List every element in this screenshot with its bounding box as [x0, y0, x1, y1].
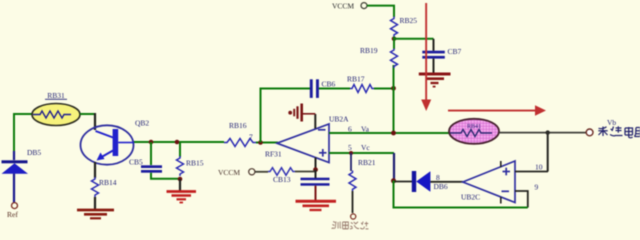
resistor RB41 (magenta ellipse) [449, 119, 499, 144]
junction at RB15 tap [175, 140, 180, 145]
svg-text:6: 6 [348, 125, 352, 134]
svg-text:Va: Va [361, 125, 370, 134]
wire Vb node down to pin 10 [547, 133, 549, 172]
diode DB6 [412, 171, 431, 192]
minus sign pin 9 [502, 190, 510, 192]
wire CB6 to RB17 [319, 88, 350, 90]
ground sideways at op-amp V+ [288, 104, 315, 122]
svg-text:RB21: RB21 [358, 158, 376, 167]
wire RB15 top lead [179, 142, 181, 157]
wire node X vertical [393, 65, 395, 133]
junction node X [391, 86, 396, 91]
wire CB5 bottom to RB15 bottom [151, 173, 180, 179]
label 采样电压 (drawn strokes) [598, 126, 640, 138]
resistor RB15 [177, 156, 184, 176]
wire cap lead [315, 170, 317, 178]
wire CB5 top lead [150, 142, 152, 165]
port Ref connector [12, 203, 18, 209]
wire VCCM to RB25 [367, 6, 394, 17]
resistor RB17 [350, 85, 374, 93]
wire DB6 cathode lead [394, 181, 413, 183]
wire CB7 to ground [433, 59, 435, 73]
svg-text:VCCM: VCCM [218, 168, 240, 177]
svg-text:5: 5 [348, 143, 352, 152]
svg-text:CB7: CB7 [448, 47, 462, 56]
svg-text:7: 7 [249, 133, 253, 142]
port VCCM (top) [332, 2, 367, 11]
svg-text:UB2C: UB2C [461, 193, 480, 202]
svg-text:UB2A: UB2A [329, 115, 349, 124]
wire feedback bottom loop [394, 181, 528, 208]
svg-text:RB19: RB19 [360, 46, 378, 55]
junction RB21 tap [349, 151, 353, 155]
op-amp UB2C (mirrored, output left) [463, 161, 515, 203]
wire RB31 to QB2 collector [80, 113, 95, 115]
svg-text:DB6: DB6 [434, 182, 448, 191]
wire pin 10 [515, 171, 548, 173]
wire VCCM to CB13 [255, 171, 268, 173]
wire to ground [179, 179, 181, 191]
wire RB14 to ground [94, 197, 96, 210]
ground below RB14 [77, 210, 114, 218]
svg-text:CB13: CB13 [273, 175, 291, 184]
wire left vertical from RB31 ellipse down to DB5 [14, 114, 33, 152]
svg-text:RB15: RB15 [186, 159, 204, 168]
wire RB21 to connector [352, 191, 354, 213]
arrow red vertical [421, 3, 431, 111]
wire cap to ground [315, 186, 317, 201]
capacitor CB7 [422, 51, 445, 59]
wire op-amp V+ stub [314, 114, 316, 129]
resistor RB14 [92, 177, 99, 197]
svg-text:RB25: RB25 [400, 16, 418, 25]
svg-text:8: 8 [436, 173, 440, 182]
wire RB16 to op-amp [256, 142, 278, 144]
diode DB5 [2, 160, 29, 173]
plus sign pin 5 [319, 149, 327, 157]
svg-text:10: 10 [535, 163, 543, 172]
svg-text:RB41: RB41 [467, 124, 481, 130]
junction at CB5 tap [149, 140, 154, 145]
junction feedback tap [258, 140, 263, 145]
op-amp UB2A (mirrored, output left) [277, 124, 329, 163]
junction DB6 node [391, 178, 396, 183]
svg-text:VCCM: VCCM [332, 2, 354, 11]
wire pin 5 / net Vc [329, 152, 394, 154]
wire Vc corner down to DB6 node [393, 153, 395, 181]
svg-text:QB2: QB2 [135, 119, 149, 128]
svg-text:RB14: RB14 [99, 178, 117, 187]
ground below RB15 [167, 192, 197, 203]
resistor RB25 [391, 17, 398, 37]
wire CB13 to V- node [295, 171, 316, 173]
wire emitter down [94, 162, 96, 178]
junction V- node [313, 167, 318, 172]
plus sign pin 10 [503, 168, 511, 176]
resistor RB21 [349, 171, 356, 192]
port VCCM (middle) [218, 168, 255, 177]
wire collector lead [94, 113, 96, 130]
svg-text:Ref: Ref [7, 210, 18, 219]
junction Vb tap [546, 130, 550, 134]
svg-text:CB5: CB5 [129, 158, 143, 167]
svg-text:DB5: DB5 [27, 148, 41, 157]
port connector (current share) [351, 214, 356, 219]
transistor QB2 [81, 125, 135, 164]
wire RB41 to Vb connector [499, 132, 586, 134]
svg-text:9: 9 [535, 183, 539, 192]
wire RB17 to node X [374, 88, 394, 90]
arrow red horizontal [448, 105, 546, 116]
port Vb connector [586, 129, 593, 136]
wire feedback up and right to CB6 [261, 89, 311, 143]
wire junction to RB19 [393, 37, 395, 50]
wire CB7 branch [394, 38, 434, 40]
svg-text:Vc: Vc [361, 143, 370, 152]
wire DB6 anode to UB2C output [430, 181, 463, 183]
op-amp power stubs [500, 161, 502, 204]
wire QB2 base to RB16 [134, 141, 224, 143]
svg-text:RF31: RF31 [265, 150, 282, 159]
ground below cap [296, 201, 337, 210]
resistor RB16 [224, 139, 256, 147]
label RB31 [45, 91, 67, 100]
capacitor CB6 [310, 79, 319, 98]
svg-text:RB17: RB17 [347, 75, 365, 84]
svg-text:Vb: Vb [607, 118, 616, 127]
capacitor at V- node [301, 178, 330, 186]
wire DB5 to Ref connector [13, 174, 15, 203]
minus sign pin 6 [318, 129, 326, 131]
ground below CB7 [419, 74, 451, 87]
junction RB25/RB19/CB7 [392, 37, 397, 42]
junction RB15 bottom [178, 177, 183, 182]
wire pin 9 [515, 191, 528, 208]
svg-text:RB16: RB16 [229, 121, 247, 130]
resistor RB19 [391, 49, 398, 68]
label 流明线均 (drawn strokes) [332, 222, 369, 230]
svg-text:RB31: RB31 [47, 91, 65, 100]
resistor CB13 [268, 168, 295, 176]
wire op-amp V- stub [315, 158, 317, 171]
wire DB5 top lead [13, 151, 15, 160]
capacitor CB5 [141, 165, 162, 172]
svg-text:CB6: CB6 [322, 80, 336, 89]
resistor RB31 (yellow ellipse thermistor) [32, 104, 80, 126]
wire RB21 top lead [350, 153, 352, 171]
wire pin 6 / net Va [329, 132, 449, 134]
junction Va tap [391, 131, 396, 136]
